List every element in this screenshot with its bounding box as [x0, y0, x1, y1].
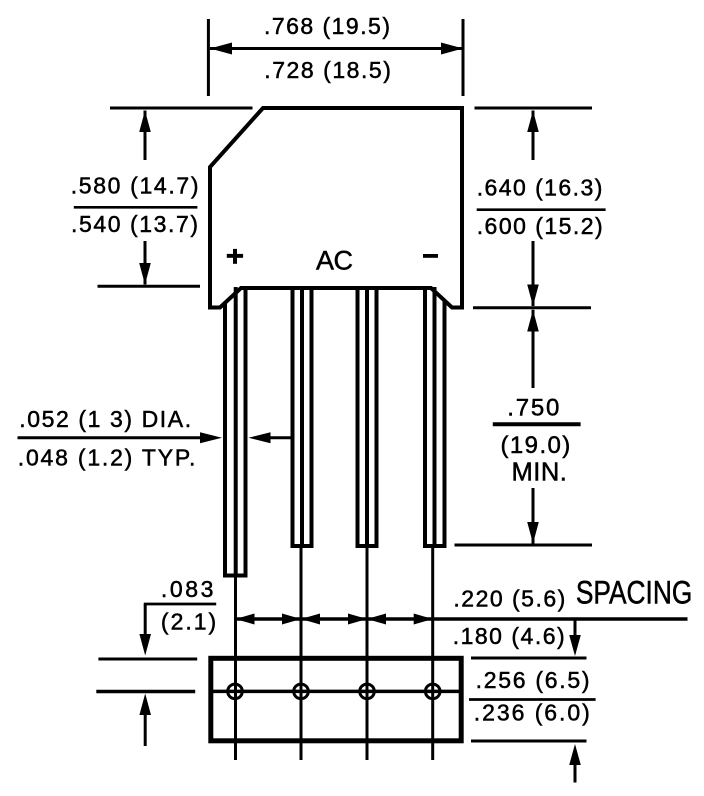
right fraction bar	[477, 208, 606, 211]
extension line body top right	[475, 107, 593, 110]
.083 dimension arrow down	[139, 604, 151, 656]
svg-text:AC: AC	[316, 246, 353, 276]
left height dimension arrow down	[139, 241, 151, 285]
pin 4 centerline	[431, 548, 434, 760]
top dimension extension line left	[207, 19, 210, 96]
hole 2	[294, 684, 309, 699]
right height dimension arrow down	[527, 241, 539, 306]
.256/.236 fraction bar	[469, 698, 596, 701]
svg-text:(19.0): (19.0)	[501, 432, 571, 459]
.083 fraction bar	[144, 603, 216, 606]
bottom view horizontal centerline	[211, 690, 461, 694]
bottom view height arrow up	[569, 744, 581, 783]
lead diameter arrow right	[18, 432, 223, 443]
lead diameter arrow left	[249, 432, 291, 443]
svg-text:.220 (5.6): .220 (5.6)	[453, 586, 565, 612]
svg-text:.052 (1 3) DIA.: .052 (1 3) DIA.	[19, 406, 191, 432]
pin 2 lead	[291, 287, 314, 546]
extension line bottom view top left	[98, 658, 197, 661]
svg-text:.236 (6.0): .236 (6.0)	[474, 700, 590, 726]
spacing dimension line with arrows	[236, 614, 688, 625]
extension line bottom view centerline left	[96, 690, 195, 694]
pin 2 centerline	[300, 548, 303, 760]
pin 3 centerline	[366, 548, 369, 760]
svg-text:.580 (14.7): .580 (14.7)	[71, 173, 199, 199]
left height dimension arrow up	[139, 111, 151, 161]
top dimension extension line right	[462, 19, 465, 96]
right height dimension arrow up	[527, 111, 539, 161]
extension line bottom view top right	[471, 657, 587, 660]
extension line bottom view bottom right	[471, 740, 587, 743]
extension line body top left	[110, 107, 253, 110]
pin 3 lead	[356, 287, 379, 546]
svg-text:SPACING: SPACING	[576, 575, 692, 611]
extension line body bottom left	[98, 285, 201, 288]
lead length dimension arrow up	[527, 310, 539, 388]
.083 dimension arrow up	[139, 694, 151, 747]
extension line pin end right	[455, 544, 593, 547]
top dimension line with arrows	[210, 43, 463, 55]
pin 1 lead	[223, 287, 248, 576]
body outline (front view of bridge rectifier)	[210, 108, 462, 308]
lead length fraction bar	[493, 422, 581, 426]
polarity label +	[227, 249, 243, 264]
bottom view outline	[211, 658, 461, 741]
hole 4	[425, 684, 440, 699]
svg-text:.640 (16.3): .640 (16.3)	[477, 175, 603, 201]
polarity label minus	[423, 254, 438, 258]
extension line standoff bottom right	[473, 306, 591, 309]
svg-text:.540 (13.7): .540 (13.7)	[71, 211, 198, 237]
svg-text:.048 (1.2) TYP.: .048 (1.2) TYP.	[18, 444, 196, 470]
pin 1 centerline	[234, 578, 237, 761]
pin 4 lead	[423, 287, 447, 546]
svg-text:.600 (15.2): .600 (15.2)	[477, 213, 603, 239]
left fraction bar	[74, 206, 198, 209]
hole 1	[228, 684, 243, 699]
svg-text:.750: .750	[507, 395, 559, 422]
hole 3	[360, 684, 375, 699]
lead length dimension arrow down	[527, 488, 539, 544]
svg-text:.768 (19.5): .768 (19.5)	[264, 13, 390, 39]
svg-text:.256 (6.5): .256 (6.5)	[476, 667, 590, 693]
bottom view height arrow down	[569, 619, 581, 656]
svg-text:MIN.: MIN.	[512, 459, 567, 487]
svg-text:.180 (4.6): .180 (4.6)	[453, 623, 565, 649]
svg-text:.728 (18.5): .728 (18.5)	[264, 57, 391, 83]
